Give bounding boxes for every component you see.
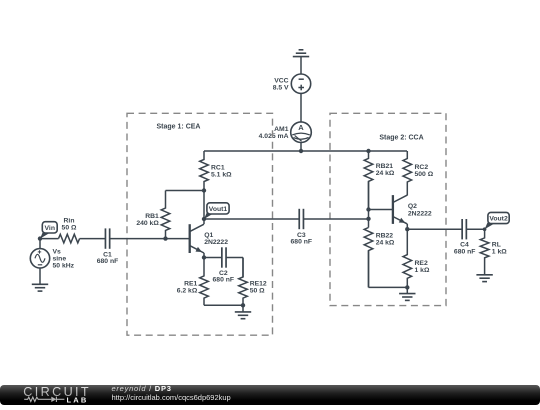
svg-text:500 Ω: 500 Ω — [415, 171, 434, 178]
resistor RE12 50 Ohm — [239, 258, 267, 306]
svg-text:4.025 mA: 4.025 mA — [259, 133, 289, 140]
wire Q2 emitter — [406, 224, 408, 229]
wire Q1 emitter — [203, 253, 205, 258]
ammeter AM1 4.025 mA — [259, 122, 312, 143]
wire Vin node to Vs — [39, 239, 41, 249]
svg-text:1 kΩ: 1 kΩ — [492, 249, 507, 256]
voltage source Vs sine 50 kHz — [30, 249, 74, 270]
capacitor C1 680 nF — [97, 228, 119, 265]
CircuitLab logo — [23, 385, 101, 410]
wire RB22 to ground rail — [369, 251, 408, 288]
svg-text:RE2: RE2 — [415, 260, 428, 267]
svg-text:VCC: VCC — [274, 77, 288, 84]
svg-text:8.5 V: 8.5 V — [273, 84, 289, 91]
resistor RB1 240 kOhm — [136, 191, 169, 239]
svg-text:RE12: RE12 — [250, 280, 267, 287]
svg-text:Q2: Q2 — [408, 203, 417, 210]
transistor Q2 2N2222 — [393, 195, 432, 224]
capacitor C2 680 nF — [213, 247, 235, 283]
wire C3 to stage 2 — [303, 218, 368, 220]
wire C2 to RE12 — [226, 258, 243, 278]
svg-text:2N2222: 2N2222 — [204, 239, 228, 246]
node Vin — [38, 236, 42, 240]
wire base Q2 — [369, 209, 393, 211]
resistor RB22 24 kOhm — [364, 228, 395, 288]
svg-text:Stage 2: CCA: Stage 2: CCA — [379, 134, 423, 141]
junction RB1-base — [163, 236, 167, 240]
junction Vout1 node — [202, 217, 206, 221]
svg-text:6.2 kΩ: 6.2 kΩ — [177, 287, 198, 294]
svg-text:AM1: AM1 — [274, 126, 289, 133]
svg-text:RB22: RB22 — [376, 232, 394, 239]
svg-text:50 Ω: 50 Ω — [250, 287, 265, 294]
svg-text:Vout2: Vout2 — [489, 215, 508, 222]
svg-text:2N2222: 2N2222 — [408, 210, 432, 217]
svg-text:Vout1: Vout1 — [209, 206, 228, 213]
svg-text:680 nF: 680 nF — [213, 277, 235, 284]
svg-text:Q1: Q1 — [204, 232, 213, 239]
svg-text:sine: sine — [53, 256, 67, 263]
junction RC1 bottom — [202, 188, 206, 192]
svg-text:240 kΩ: 240 kΩ — [136, 220, 159, 227]
ground (input source) — [32, 284, 48, 291]
wire C1 to Q1 base — [110, 238, 190, 240]
wire supply rail — [204, 150, 407, 152]
svg-text:Vin: Vin — [45, 225, 55, 232]
stage 1 enclosure (dashed) — [127, 113, 273, 335]
svg-text:Rin: Rin — [64, 217, 75, 224]
label flag Vin — [40, 222, 57, 239]
wire to stage2 ground — [406, 287, 408, 293]
svg-text:24 kΩ: 24 kΩ — [376, 239, 395, 246]
stage 2 enclosure (dashed) — [330, 113, 446, 305]
wire collector Q1 — [203, 191, 205, 225]
svg-text:RE1: RE1 — [184, 280, 197, 287]
label Stage 1: CEA — [157, 124, 201, 131]
junction below AM1 — [299, 149, 303, 153]
wire RC1 junction to RB1 top — [166, 190, 205, 192]
ground (stage 2) — [399, 294, 415, 301]
ground (load) — [476, 275, 492, 282]
CircuitLab footer bar — [0, 385, 540, 406]
svg-text:RC1: RC1 — [211, 164, 225, 171]
svg-text:24 kΩ: 24 kΩ — [376, 170, 395, 177]
junction stage1 ground node — [241, 303, 245, 307]
svg-text:Vs: Vs — [53, 249, 62, 256]
wire Rin to C1 — [80, 238, 106, 240]
svg-text:680 nF: 680 nF — [291, 238, 313, 245]
svg-text:1 kΩ: 1 kΩ — [415, 267, 430, 274]
junction Q2 base node — [366, 207, 370, 211]
svg-text:LAB: LAB — [67, 395, 89, 404]
wire emitter to C2 — [204, 257, 222, 259]
junction Q2 emitter node — [405, 227, 409, 231]
wire RE1 to RE12 bottom — [204, 304, 243, 306]
ground (stage 1) — [235, 312, 251, 319]
resistor RL 1 kOhm — [480, 229, 507, 274]
label Stage 2: CCA — [379, 134, 423, 141]
wire VCC to AM1 — [300, 93, 302, 122]
svg-text:Stage 1: CEA: Stage 1: CEA — [157, 124, 201, 131]
svg-text:RL: RL — [492, 242, 501, 249]
wire Vout1 to C3 — [204, 218, 299, 220]
svg-text:5.1 kΩ: 5.1 kΩ — [211, 171, 232, 178]
voltage source VCC 8.5 V — [273, 74, 311, 93]
junction rail-RB21 — [366, 149, 370, 153]
wire Vin node to Rin — [40, 238, 59, 240]
resistor RC1 5.1 kOhm — [200, 151, 232, 191]
junction stage2 ground node — [405, 285, 409, 289]
svg-text:RC2: RC2 — [415, 164, 429, 171]
svg-text:680 nF: 680 nF — [454, 248, 476, 255]
junction C3-RB2 node — [366, 217, 370, 221]
svg-text:680 nF: 680 nF — [97, 258, 119, 265]
ground (power return above VCC) — [293, 50, 309, 74]
transistor Q1 2N2222 — [190, 224, 229, 253]
capacitor C4 680 nF — [454, 219, 476, 255]
svg-text:50 Ω: 50 Ω — [62, 224, 77, 231]
node Vout2 — [483, 227, 487, 231]
resistor RB21 24 kOhm — [364, 151, 395, 210]
resistor RC2 500 Ohm — [403, 151, 434, 195]
resistor RE2 1 kOhm — [403, 229, 430, 287]
svg-text:RB1: RB1 — [145, 213, 159, 220]
svg-text:50 kHz: 50 kHz — [53, 263, 75, 270]
wire C4 to RL — [466, 228, 484, 230]
wire RB21 to RB22 — [368, 181, 370, 227]
wire Q2 emitter to C4 — [407, 228, 462, 230]
wire Vs to ground — [39, 268, 41, 284]
resistor Rin 50 Ohm — [59, 217, 80, 243]
wire to stage1 ground — [242, 305, 244, 312]
junction Q1 emitter node — [202, 255, 206, 259]
label flag Vout2 — [485, 212, 510, 229]
capacitor C3 680 nF — [291, 209, 313, 246]
credit text — [112, 384, 231, 403]
wire AM1 to supply rail — [300, 143, 302, 152]
resistor RE1 6.2 kOhm — [177, 258, 209, 306]
label flag Vout1 — [204, 203, 229, 219]
svg-text:A: A — [298, 123, 304, 132]
svg-text:RB21: RB21 — [376, 163, 394, 170]
